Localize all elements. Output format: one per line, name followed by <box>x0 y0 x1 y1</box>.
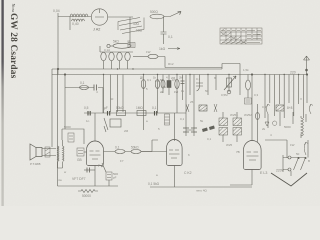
resistor right of pot <box>239 75 241 96</box>
svg-text:0,1 5kΩ: 0,1 5kΩ <box>148 182 160 186</box>
scan edge strip <box>0 0 1 1</box>
svg-text:F7: F7 <box>120 159 124 163</box>
box around cap+res above transformer <box>62 129 84 144</box>
electrolytic caps row right <box>267 104 271 114</box>
svg-text:5000: 5000 <box>284 125 291 129</box>
switch S2 mains arm <box>164 12 181 17</box>
right vertical bus drops <box>265 75 307 119</box>
resistor 500Ω <box>150 14 164 19</box>
volume pot <box>228 75 230 93</box>
svg-text:220: 220 <box>290 71 296 75</box>
svg-text:B: B <box>308 159 310 163</box>
svg-text:220V: 220V <box>276 169 285 173</box>
svg-text:0,5: 0,5 <box>262 105 267 109</box>
coil L1 <box>70 14 88 17</box>
svg-text:VF7 DF7: VF7 DF7 <box>72 177 86 181</box>
svg-text:50: 50 <box>296 152 300 156</box>
bottom wire left <box>58 185 119 187</box>
rail B <box>52 74 307 76</box>
svg-text:25: 25 <box>190 100 194 104</box>
svg-text:0,1: 0,1 <box>115 146 120 150</box>
svg-text:W25: W25 <box>226 143 233 147</box>
mains switch contacts <box>291 158 306 171</box>
heater line jog <box>222 64 240 75</box>
svg-text:1n: 1n <box>86 119 90 123</box>
svg-text:J A2: J A2 <box>93 28 100 32</box>
svg-text:1W: 1W <box>290 143 295 147</box>
svg-text:μF: μF <box>104 106 108 110</box>
svg-text:W251: W251 <box>230 113 238 117</box>
coupling caps pair <box>202 126 215 133</box>
tube V2 AF dome <box>87 141 104 166</box>
svg-text:0,04: 0,04 <box>53 9 60 13</box>
grid capacitor GB <box>77 148 84 156</box>
stubs below symbol row <box>268 112 306 128</box>
svg-text:50kΩ: 50kΩ <box>131 146 139 150</box>
svg-text:50000: 50000 <box>82 194 91 198</box>
wire top horizontal <box>58 16 91 18</box>
speaker <box>36 148 42 157</box>
wire x103 down <box>102 88 104 114</box>
svg-text:0,1: 0,1 <box>180 117 185 121</box>
svg-text:0,1: 0,1 <box>207 137 212 141</box>
electrolytic bottom right <box>304 142 308 155</box>
svg-text:2M: 2M <box>124 129 129 133</box>
wire antenna input vertical <box>57 13 59 75</box>
drops from rail B to row <box>185 75 187 114</box>
coupling resistors right of tube <box>104 151 153 153</box>
svg-text:5k: 5k <box>200 119 204 123</box>
IF transformer hatched <box>219 118 242 135</box>
svg-text:P.T.Ω88: P.T.Ω88 <box>30 162 41 166</box>
components under rail mid right <box>189 75 191 96</box>
svg-text:0,5: 0,5 <box>84 106 89 110</box>
svg-text:0,1: 0,1 <box>155 79 160 83</box>
small box right of 5k oval <box>128 43 135 48</box>
svg-text:5kΩ: 5kΩ <box>113 40 119 44</box>
rectifier small symbols <box>265 121 277 126</box>
scattered value labels <box>58 39 310 182</box>
output transformer <box>58 146 60 161</box>
svg-text:7B: 7B <box>236 150 240 154</box>
filter choke <box>301 118 303 136</box>
wire from tube V1 to switch <box>108 17 133 44</box>
junction dots rail B <box>103 68 299 75</box>
svg-text:50: 50 <box>110 97 114 101</box>
mains plug bracket <box>283 155 288 172</box>
rail A <box>52 68 222 70</box>
svg-text:nF: nF <box>127 39 131 43</box>
svg-text:0,40: 0,40 <box>72 22 79 26</box>
wire to cord <box>290 171 292 176</box>
svg-text:0,1: 0,1 <box>147 78 151 82</box>
svg-text:2k: 2k <box>262 127 266 131</box>
svg-text:GB: GB <box>77 158 82 162</box>
wire coil lead <box>69 17 71 31</box>
svg-text:F: F <box>98 164 100 168</box>
svg-text:E L3: E L3 <box>260 171 267 175</box>
grid box <box>110 119 121 127</box>
svg-text:1W: 1W <box>146 50 151 54</box>
svg-text:1kΩ: 1kΩ <box>159 47 166 51</box>
svg-text:2M: 2M <box>179 76 184 80</box>
svg-text:1,5k: 1,5k <box>243 68 249 72</box>
svg-text:0,5M: 0,5M <box>221 93 228 97</box>
svg-text:nero 4Ω: nero 4Ω <box>196 189 208 193</box>
tube V4 output dome <box>244 140 262 169</box>
wire heater chain <box>133 56 148 58</box>
resistor 5kΩ horizontal <box>113 43 131 48</box>
svg-text:5k: 5k <box>163 85 167 89</box>
svg-text:0,1: 0,1 <box>152 106 157 110</box>
switch F below row <box>104 118 108 132</box>
wire tube2 top components <box>141 140 167 152</box>
screen components above tube V3 <box>186 75 194 137</box>
lamp row (heater resistors) <box>100 46 133 52</box>
capacitor 500pF <box>106 172 112 180</box>
resistor small right of tube3 top <box>257 104 259 142</box>
components row y113 <box>84 112 186 114</box>
resistor heater chain <box>148 54 158 58</box>
cathode resistor tube V4 <box>246 80 251 90</box>
svg-text:0,3: 0,3 <box>254 93 259 97</box>
band switch S1 <box>118 18 144 34</box>
resistor 50000 bottom <box>78 190 98 193</box>
svg-text:C K2: C K2 <box>184 171 192 175</box>
svg-text:1MΩ: 1MΩ <box>136 106 143 110</box>
svg-text:0,1A: 0,1A <box>104 48 110 52</box>
svg-text:1W: 1W <box>174 90 179 94</box>
capacitor and resistor below rail <box>65 87 103 89</box>
svg-text:GW 28 Csardas: GW 28 Csardas <box>8 13 18 79</box>
svg-text:2M: 2M <box>171 76 176 80</box>
svg-text:Nora: Nora <box>11 4 16 13</box>
capacitor 0,1 top right <box>161 17 167 45</box>
wire left drop x57.5 <box>57 69 59 186</box>
wire left drop x52 <box>51 69 53 147</box>
mains cord arrow <box>271 173 307 186</box>
svg-text:R12: R12 <box>168 62 174 66</box>
svg-text:V: V <box>300 97 302 101</box>
svg-text:pF: pF <box>113 176 117 180</box>
top row small symbols mid <box>186 104 189 112</box>
svg-text:40Ω: 40Ω <box>133 22 140 26</box>
node circle <box>107 44 110 47</box>
svg-text:W252: W252 <box>244 113 252 117</box>
mains antenna symbol top right <box>304 56 310 75</box>
svg-text:500Ω: 500Ω <box>150 10 158 14</box>
svg-text:50: 50 <box>205 89 209 93</box>
cathode wire tube V2 <box>84 169 95 171</box>
svg-text:5000: 5000 <box>64 125 71 129</box>
svg-text:0,1: 0,1 <box>168 35 173 39</box>
tube V3 dome <box>167 140 183 166</box>
svg-text:1k: 1k <box>181 89 185 93</box>
svg-text:10Ω: 10Ω <box>136 29 143 33</box>
measurement table <box>220 28 262 44</box>
switch F 0 <box>101 163 106 172</box>
cluster labels <box>140 76 184 95</box>
svg-text:8+8: 8+8 <box>287 106 293 110</box>
resistor cluster below rail <box>144 75 183 131</box>
svg-text:0,1: 0,1 <box>80 81 85 85</box>
tube V1 circle <box>91 9 107 25</box>
speaker series resistor <box>45 147 50 157</box>
bottom wire middle <box>150 186 252 188</box>
svg-text:0,1: 0,1 <box>196 77 201 81</box>
wire left drop x65 <box>64 75 66 130</box>
